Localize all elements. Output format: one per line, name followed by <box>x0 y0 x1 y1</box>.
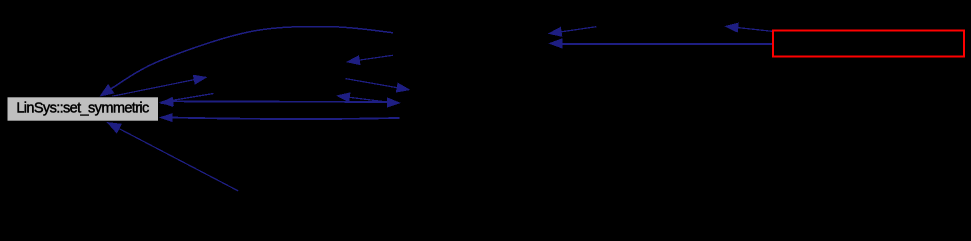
edge E13: long diagonal from hidden bottom node into grey box bottom (arrowhead pointing up-left) <box>107 122 239 191</box>
node: LinSys::set_symmetric (current node, grey filled box) <box>7 97 159 121</box>
edge E5: long horizontal from hidden node into grey box right edge (arrowhead pointing left) <box>159 113 400 122</box>
edge E4: double horizontal pair between grey box and hidden node (arrowheads both ends) <box>159 97 401 107</box>
edge E11: from red box into hidden col-4 node (arrowhead pointing left-up) <box>724 23 773 33</box>
edge E2: from grey box top to hidden middle node (arrowhead pointing right) <box>112 75 208 97</box>
svg-text:LinSys::set_symmetric: LinSys::set_symmetric <box>16 101 149 117</box>
edge E6: from hidden middle node to hidden node (arrowhead pointing right-down) <box>346 79 411 93</box>
edge E3: from hidden middle node into grey box right edge (arrowhead pointing left-down) <box>160 94 214 106</box>
edge E1: curved edge from hidden node to LinSys::set_symmetric (arrowhead at box top) <box>99 27 393 97</box>
edge E7: from hidden node into hidden middle node (arrowhead pointing left) <box>336 92 390 102</box>
edge E9: from hidden col-4 node into hidden col-3 node (arrowhead pointing left) <box>548 27 597 37</box>
node: truncated node (red outlined box, label hidden) <box>773 31 964 57</box>
edge E10: long horizontal from red box into hidden col-3 node (arrowhead pointing left) <box>548 38 772 48</box>
edge E8: from hidden col-3 node into hidden col-2 node (arrowhead pointing left) <box>346 55 393 65</box>
